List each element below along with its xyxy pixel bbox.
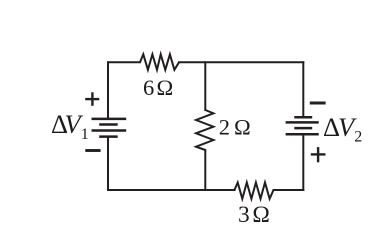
wire bottom-right segment (274, 189, 304, 191)
svg-text:ΔV1: ΔV1 (51, 109, 89, 143)
minus sign left (85, 149, 100, 152)
wire right-top vertical (302, 62, 304, 117)
resistor R2 2-ohm zigzag (196, 110, 214, 150)
battery V1 short plate 2 (99, 135, 118, 138)
plus sign right (311, 147, 326, 162)
wire top-left segment (108, 61, 140, 63)
resistor R3 3-ohm zigzag (235, 183, 274, 199)
wire left-top vertical (107, 62, 109, 119)
svg-text:6Ω: 6Ω (143, 75, 173, 100)
wire bottom-left segment (108, 189, 235, 191)
wire top-right segment (179, 61, 303, 63)
plus sign left (85, 92, 99, 106)
battery V2 long plate 1 (286, 121, 319, 124)
battery V1 long plate 1 (92, 118, 127, 121)
battery V2 long plate 2 (286, 133, 319, 136)
svg-text:2Ω: 2Ω (219, 115, 251, 140)
battery V2 short plate 1 (294, 116, 312, 119)
battery V2 short plate 2 (294, 127, 312, 130)
battery V1 short plate 1 (99, 123, 118, 126)
battery V1 long plate 2 (92, 129, 127, 132)
wire middle-top vertical (204, 62, 206, 110)
wire middle-bottom vertical (204, 150, 206, 190)
resistor R1 6-ohm zigzag (140, 54, 179, 70)
svg-text:ΔV2: ΔV2 (323, 112, 362, 146)
svg-text:3Ω: 3Ω (238, 202, 270, 228)
minus sign right (310, 102, 326, 105)
wire right-bottom vertical (302, 134, 304, 190)
wire left-bottom vertical (107, 137, 109, 190)
